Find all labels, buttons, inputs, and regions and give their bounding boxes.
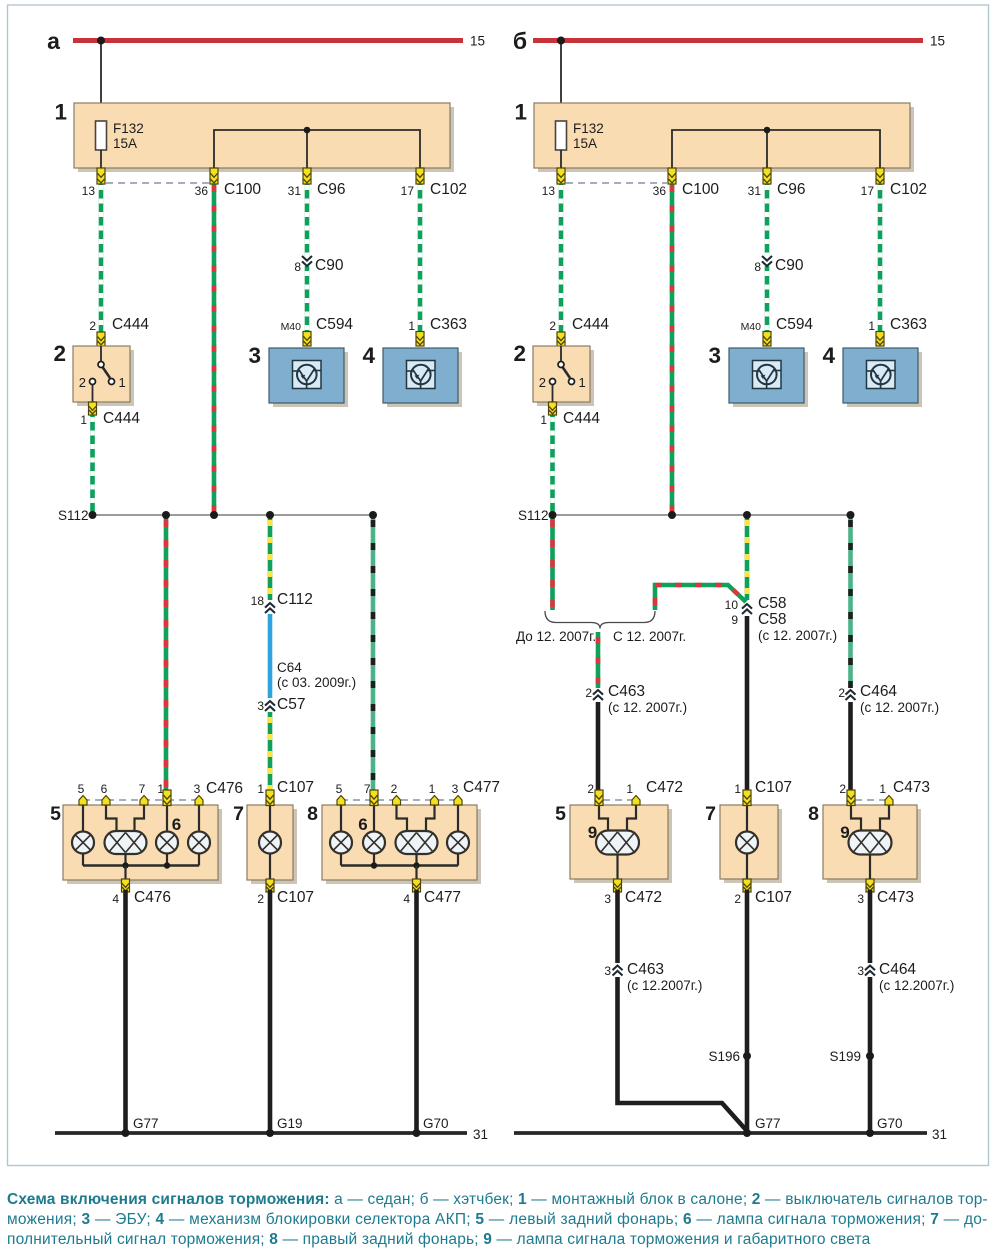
svg-text:C57: C57: [277, 696, 305, 713]
svg-text:8: 8: [294, 260, 301, 274]
svg-text:4: 4: [822, 343, 835, 368]
svg-text:F132: F132: [113, 121, 144, 136]
svg-text:1: 1: [257, 782, 264, 796]
svg-text:(с 12. 2007г.): (с 12. 2007г.): [608, 700, 687, 715]
svg-text:(с 12.2007г.): (с 12.2007г.): [879, 978, 954, 993]
svg-text:7: 7: [139, 782, 146, 796]
svg-text:2: 2: [587, 782, 594, 796]
svg-text:36: 36: [653, 184, 667, 198]
svg-text:13: 13: [542, 184, 556, 198]
svg-text:6: 6: [172, 815, 181, 834]
svg-text:G70: G70: [423, 1116, 449, 1131]
svg-text:7: 7: [705, 803, 716, 825]
svg-text:G77: G77: [755, 1116, 781, 1131]
svg-text:8: 8: [307, 803, 318, 825]
svg-text:2: 2: [838, 686, 845, 700]
svg-text:15A: 15A: [573, 136, 597, 151]
svg-text:31: 31: [288, 184, 302, 198]
svg-text:M40: M40: [281, 321, 302, 333]
svg-text:15A: 15A: [113, 136, 137, 151]
svg-text:C473: C473: [877, 889, 914, 906]
svg-text:С 12. 2007г.: С 12. 2007г.: [613, 629, 686, 644]
svg-text:17: 17: [861, 184, 875, 198]
svg-text:C107: C107: [755, 889, 792, 906]
svg-text:(с 12.2007г.): (с 12.2007г.): [627, 978, 702, 993]
svg-text:9: 9: [731, 613, 738, 627]
svg-text:8: 8: [754, 260, 761, 274]
svg-text:10: 10: [725, 598, 739, 612]
svg-text:1: 1: [408, 319, 415, 333]
svg-text:1: 1: [119, 375, 126, 390]
svg-text:18: 18: [251, 594, 265, 608]
svg-text:(с 03. 2009г.): (с 03. 2009г.): [277, 675, 356, 690]
svg-text:(с 12. 2007г.): (с 12. 2007г.): [860, 700, 939, 715]
svg-text:1: 1: [514, 100, 527, 125]
svg-text:C363: C363: [890, 316, 927, 333]
svg-text:36: 36: [195, 184, 209, 198]
svg-text:C472: C472: [646, 779, 683, 796]
svg-text:C102: C102: [890, 181, 927, 198]
svg-text:2: 2: [839, 782, 846, 796]
svg-text:31: 31: [932, 1127, 947, 1142]
svg-text:S199: S199: [829, 1049, 861, 1064]
svg-text:C100: C100: [682, 181, 719, 198]
svg-text:C473: C473: [893, 779, 930, 796]
svg-text:б: б: [513, 28, 527, 54]
svg-text:а: а: [47, 28, 60, 54]
svg-text:C472: C472: [625, 889, 662, 906]
svg-text:S196: S196: [708, 1049, 740, 1064]
svg-text:C363: C363: [430, 316, 467, 333]
svg-text:4: 4: [112, 892, 119, 906]
svg-text:5: 5: [78, 782, 85, 796]
svg-text:F132: F132: [573, 121, 604, 136]
svg-text:15: 15: [930, 34, 945, 49]
svg-text:1: 1: [879, 782, 886, 796]
svg-text:2: 2: [513, 341, 526, 366]
svg-text:1: 1: [579, 375, 586, 390]
svg-text:8: 8: [808, 803, 819, 825]
svg-text:C100: C100: [224, 181, 261, 198]
svg-text:C463: C463: [608, 683, 645, 700]
svg-text:C90: C90: [775, 257, 804, 274]
svg-text:5: 5: [50, 803, 61, 825]
svg-text:1: 1: [429, 782, 436, 796]
svg-text:C444: C444: [572, 316, 609, 333]
svg-text:6: 6: [358, 815, 367, 834]
svg-text:C444: C444: [112, 316, 149, 333]
svg-text:17: 17: [401, 184, 415, 198]
svg-text:C102: C102: [430, 181, 467, 198]
svg-text:C112: C112: [277, 591, 313, 608]
svg-text:2: 2: [79, 375, 86, 390]
svg-text:C96: C96: [777, 181, 805, 198]
svg-text:2: 2: [734, 892, 741, 906]
svg-text:1: 1: [868, 319, 875, 333]
svg-text:3: 3: [257, 699, 264, 713]
svg-text:3: 3: [604, 892, 611, 906]
svg-text:C64: C64: [277, 660, 302, 675]
svg-text:1: 1: [734, 782, 741, 796]
svg-text:C107: C107: [277, 779, 314, 796]
svg-text:C58: C58: [758, 595, 786, 612]
svg-text:C476: C476: [134, 889, 171, 906]
svg-text:G77: G77: [133, 1116, 159, 1131]
svg-text:7: 7: [233, 803, 244, 825]
svg-text:G19: G19: [277, 1116, 303, 1131]
svg-text:C594: C594: [316, 316, 353, 333]
svg-text:C107: C107: [755, 779, 792, 796]
svg-text:C444: C444: [563, 410, 600, 427]
svg-text:C594: C594: [776, 316, 813, 333]
svg-text:C476: C476: [206, 780, 243, 797]
svg-text:C464: C464: [879, 961, 916, 978]
svg-text:M40: M40: [741, 321, 762, 333]
svg-text:S112: S112: [58, 508, 89, 523]
svg-text:(с 12. 2007г.): (с 12. 2007г.): [758, 628, 837, 643]
svg-text:31: 31: [748, 184, 762, 198]
svg-text:До 12. 2007г.: До 12. 2007г.: [516, 629, 596, 644]
svg-text:2: 2: [549, 319, 556, 333]
svg-text:5: 5: [555, 803, 566, 825]
svg-text:C96: C96: [317, 181, 345, 198]
svg-text:3: 3: [857, 964, 864, 978]
svg-text:5: 5: [336, 782, 343, 796]
svg-text:3: 3: [857, 892, 864, 906]
svg-text:3: 3: [708, 343, 721, 368]
svg-text:1: 1: [540, 413, 547, 427]
svg-text:2: 2: [257, 892, 264, 906]
svg-text:3: 3: [248, 343, 261, 368]
svg-text:4: 4: [362, 343, 375, 368]
svg-text:2: 2: [585, 686, 592, 700]
svg-text:C90: C90: [315, 257, 344, 274]
svg-text:13: 13: [82, 184, 96, 198]
svg-text:15: 15: [470, 34, 485, 49]
svg-text:1: 1: [54, 100, 67, 125]
svg-text:3: 3: [194, 782, 201, 796]
svg-text:C463: C463: [627, 961, 664, 978]
svg-text:31: 31: [473, 1127, 488, 1142]
svg-text:2: 2: [391, 782, 398, 796]
svg-text:C58: C58: [758, 611, 786, 628]
svg-text:2: 2: [89, 319, 96, 333]
svg-text:C464: C464: [860, 683, 897, 700]
svg-text:C444: C444: [103, 410, 140, 427]
svg-text:6: 6: [101, 782, 108, 796]
svg-text:1: 1: [626, 782, 633, 796]
svg-text:2: 2: [539, 375, 546, 390]
svg-text:C477: C477: [424, 889, 461, 906]
svg-text:C477: C477: [463, 779, 500, 796]
svg-text:2: 2: [53, 341, 66, 366]
svg-text:4: 4: [403, 892, 410, 906]
svg-text:3: 3: [604, 964, 611, 978]
svg-text:S112: S112: [518, 508, 549, 523]
svg-text:G70: G70: [877, 1116, 903, 1131]
svg-text:1: 1: [80, 413, 87, 427]
svg-text:C107: C107: [277, 889, 314, 906]
svg-text:3: 3: [452, 782, 459, 796]
